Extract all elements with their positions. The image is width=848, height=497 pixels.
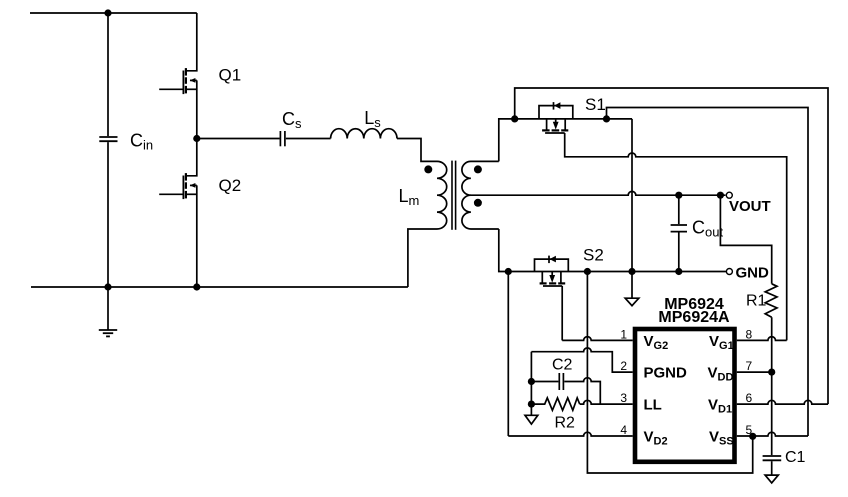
node: VDD pin / R1 bbox=[768, 369, 775, 376]
svg-text:S1: S1 bbox=[585, 95, 606, 114]
Q1 gate bar bbox=[182, 71, 184, 95]
svg-text:3: 3 bbox=[620, 391, 627, 405]
node: bottom rail / Cin bbox=[104, 283, 111, 290]
svg-text:GND: GND bbox=[736, 264, 770, 281]
Q2 channel segments bbox=[185, 173, 187, 198]
wire: Ls to transformer primary top bbox=[397, 139, 437, 162]
svg-text:LL: LL bbox=[644, 396, 662, 413]
pin 2 PGND wire bbox=[531, 348, 632, 372]
S1 body diode bar bbox=[553, 102, 555, 110]
wire: upper secondary to S1 bbox=[499, 119, 539, 161]
svg-text:C2: C2 bbox=[552, 357, 573, 374]
ground symbol at PGND node bbox=[525, 415, 538, 424]
wire: GND rail bbox=[587, 271, 726, 273]
S1 contact stubs bbox=[546, 119, 548, 130]
wire: S1 gate to VG1 bbox=[565, 133, 787, 340]
S2 body arrow bbox=[551, 272, 553, 277]
svg-text:Cout: Cout bbox=[692, 218, 723, 240]
wire: S2 source down and around to VSS bbox=[587, 272, 752, 474]
svg-text:6: 6 bbox=[746, 391, 753, 405]
ground symbol (earth) at Cin bbox=[107, 287, 109, 330]
pin 3 LL wire bbox=[580, 400, 633, 404]
inductor Ls bbox=[331, 129, 397, 139]
node: S1 drain junction bbox=[511, 115, 518, 122]
resistor R1 bbox=[765, 284, 777, 317]
IC U1 MP6924 bbox=[635, 329, 735, 462]
S2 body diode bar bbox=[548, 256, 550, 264]
node: top rail / Cin junction bbox=[104, 9, 111, 16]
S1 channel contact bars bbox=[542, 129, 568, 131]
node: GND rail / Cout bbox=[675, 268, 682, 275]
wire: S1 source down to GND rail bbox=[631, 119, 633, 272]
wire: Cs to Ls bbox=[286, 138, 331, 140]
Q1 channel segments bbox=[185, 68, 187, 93]
capacitor Cout bbox=[678, 195, 680, 224]
svg-text:R2: R2 bbox=[555, 415, 576, 432]
node: S2 source / VSS branch bbox=[584, 268, 591, 275]
Q1 body stub + arrow bbox=[190, 79, 197, 81]
transformer core bbox=[451, 161, 453, 230]
S2 main wire bbox=[535, 271, 588, 273]
wire: Cin lower lead bbox=[107, 142, 109, 287]
svg-text:R1: R1 bbox=[746, 293, 767, 310]
secondary polarity dot lower bbox=[474, 199, 482, 207]
Q1 gate stub bbox=[159, 88, 182, 90]
svg-text:Lm: Lm bbox=[399, 186, 420, 208]
svg-text:Cin: Cin bbox=[130, 130, 153, 152]
node: left node / C2 bbox=[528, 378, 535, 385]
node: VOUT rail / Cout bbox=[675, 192, 682, 199]
wire: Q1 drain from top rail bbox=[187, 13, 197, 71]
wire: midpoint to Cs bbox=[197, 138, 280, 140]
wire: Q2 drain from midpoint bbox=[187, 139, 197, 176]
S1 main wire bbox=[539, 118, 632, 120]
S2 gate bar bbox=[543, 285, 562, 287]
svg-text:MP6924A: MP6924A bbox=[658, 309, 730, 326]
wire: bottom input rail bbox=[31, 286, 408, 288]
Q2 gate bar bbox=[182, 176, 184, 200]
transistor Q2 bbox=[159, 139, 197, 288]
terminal: GND open circle bbox=[726, 269, 732, 275]
capacitor Cin bbox=[99, 137, 117, 141]
S1 body diode triangle bbox=[554, 102, 560, 109]
transformer T1 primary winding Lm bbox=[437, 161, 447, 229]
pin 6 VD1 wire bbox=[737, 400, 828, 404]
S1 body-diode loop bbox=[539, 106, 573, 119]
S2 channel contact bars bbox=[540, 282, 566, 284]
S1 gate bar bbox=[545, 132, 565, 134]
wire: primary bottom return bbox=[408, 229, 437, 287]
wire: S1 drain sense to top bbox=[515, 88, 828, 404]
resistor R2 bbox=[531, 398, 579, 410]
node: VOUT rail / R1 branch bbox=[717, 192, 724, 199]
Q2 gate stub bbox=[159, 193, 182, 195]
wire: top input rail bbox=[30, 12, 197, 14]
S2 body-diode loop bbox=[535, 259, 569, 271]
pin 7 VDD wire bbox=[737, 371, 772, 373]
svg-text:1: 1 bbox=[620, 327, 627, 341]
wire: Q1 source down to midpoint bbox=[196, 80, 198, 138]
wire: Cin upper lead bbox=[107, 13, 109, 136]
node: half-bridge midpoint bbox=[193, 135, 200, 142]
svg-text:Cs: Cs bbox=[282, 109, 302, 131]
svg-text:2: 2 bbox=[620, 359, 627, 373]
secondary polarity dot upper bbox=[474, 165, 482, 173]
node: left node / R2 bbox=[528, 401, 535, 408]
svg-text:VOUT: VOUT bbox=[729, 198, 771, 215]
node: VSS pin / bottom loop bbox=[749, 433, 756, 440]
wire: Q2 source down to bottom rail bbox=[196, 185, 198, 287]
ground symbol at GND rail bbox=[631, 272, 633, 299]
wire: S2 gate to VG2 bbox=[561, 286, 563, 340]
wire: left node vertical bbox=[530, 352, 532, 416]
transformer secondary upper winding bbox=[462, 161, 499, 195]
wire: S1 source sense bbox=[607, 108, 809, 437]
node: S1 source junction bbox=[603, 115, 610, 122]
svg-text:PGND: PGND bbox=[644, 364, 688, 381]
capacitor C2 bbox=[531, 381, 558, 383]
pin 8 VG1 wire bbox=[737, 337, 787, 341]
transistor S2 (SR MOSFET, horizontal) bbox=[535, 256, 588, 286]
node: bottom rail / Q2 bbox=[193, 283, 200, 290]
Q2 body stub + arrow bbox=[190, 184, 197, 186]
transformer primary polarity dot bbox=[424, 165, 432, 173]
svg-text:8: 8 bbox=[746, 327, 753, 341]
terminal: VOUT open circle bbox=[726, 192, 732, 198]
transformer secondary lower winding bbox=[462, 195, 499, 229]
node: S2 drain / VD2 branch bbox=[505, 268, 512, 275]
svg-text:7: 7 bbox=[746, 359, 753, 373]
svg-text:Ls: Ls bbox=[364, 108, 381, 130]
ground symbol at C1 bbox=[765, 475, 778, 483]
pin 1 VG2 wire bbox=[562, 337, 633, 341]
svg-text:Q2: Q2 bbox=[219, 176, 242, 195]
wire: R1 to VDD and on to C1 bbox=[771, 317, 773, 455]
svg-text:S2: S2 bbox=[583, 246, 604, 265]
Q2 source stub bbox=[187, 193, 197, 195]
capacitor C1 bbox=[763, 455, 782, 457]
wire: center tap to VOUT rail bbox=[471, 191, 726, 195]
S1 body arrow bbox=[555, 119, 557, 123]
pin 4 VD2 wire bbox=[508, 432, 632, 436]
wire: lower secondary down to S2 bbox=[499, 229, 535, 272]
wire: VOUT to R1 jog bbox=[720, 195, 771, 284]
S2 body diode triangle bbox=[550, 256, 556, 263]
Q1 source stub bbox=[187, 88, 197, 90]
svg-text:Q1: Q1 bbox=[219, 65, 242, 84]
wire: S2 drain sense down to VD2 bbox=[507, 272, 509, 437]
svg-text:C1: C1 bbox=[785, 449, 806, 466]
capacitor Cs bbox=[279, 131, 281, 146]
node: GND rail / S1 source bbox=[628, 268, 635, 275]
transistor S1 (SR MOSFET, horizontal) bbox=[539, 102, 632, 133]
transistor Q1 bbox=[159, 13, 197, 139]
pin 5 VSS wire bbox=[737, 432, 808, 436]
S2 contact stubs bbox=[541, 272, 543, 284]
svg-text:4: 4 bbox=[620, 423, 627, 437]
